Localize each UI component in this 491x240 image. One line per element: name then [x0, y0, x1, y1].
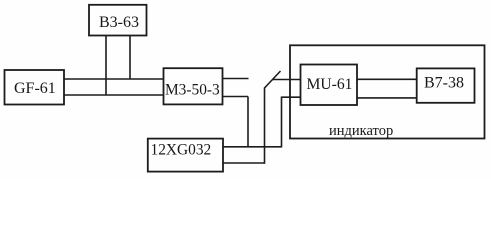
svg-text:М3-50-3: М3-50-3 [165, 82, 220, 99]
svg-text:12ХG032: 12ХG032 [151, 142, 212, 159]
svg-text:GF-61: GF-61 [14, 80, 56, 97]
svg-text:индикатор: индикатор [329, 123, 393, 139]
svg-text:В7-38: В7-38 [424, 75, 464, 92]
svg-text:MU-61: MU-61 [307, 76, 353, 93]
svg-text:В3-63: В3-63 [99, 14, 139, 31]
